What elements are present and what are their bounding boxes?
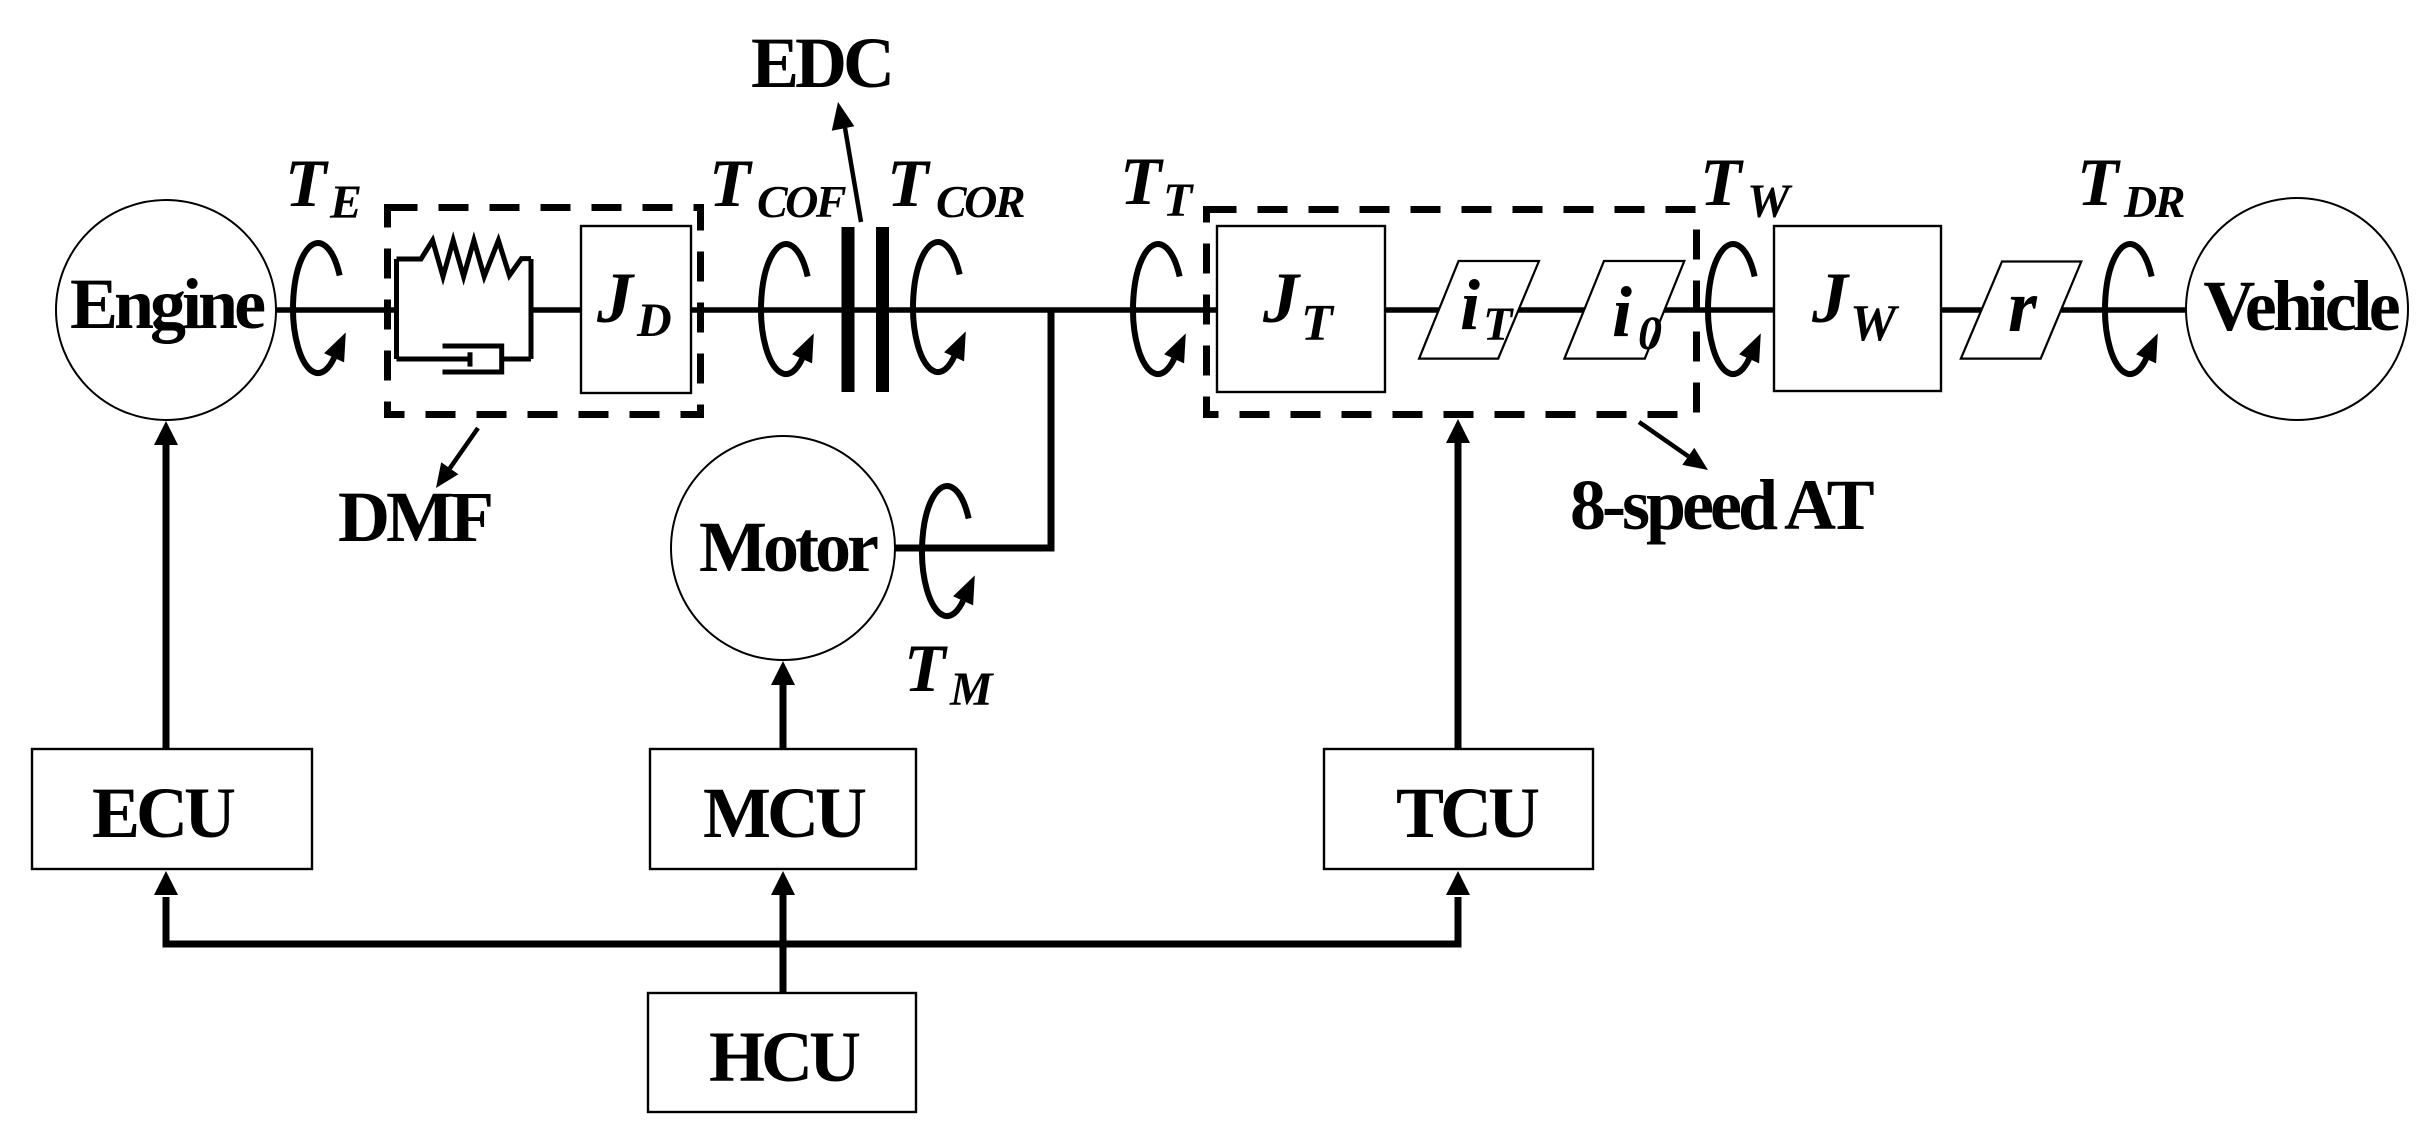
svg-text:8-speed: 8-speed [1570, 465, 1778, 545]
svg-text:T: T [285, 145, 329, 221]
svg-text:E: E [329, 176, 362, 229]
box J_T (transmission inertia) [1217, 226, 1385, 392]
Motor circle [671, 436, 895, 660]
arrow MCU to Motor [780, 683, 787, 749]
svg-text:COR: COR [936, 176, 1024, 227]
svg-text:T: T [1483, 298, 1514, 351]
clutch rear plate [876, 227, 889, 392]
svg-text:Engine: Engine [70, 264, 265, 344]
spring-damper left rail [394, 259, 399, 359]
svg-text:ECU: ECU [92, 773, 235, 853]
svg-text:Vehicle: Vehicle [2203, 266, 2399, 346]
box TCU [1324, 749, 1593, 869]
EDC arrow [845, 128, 861, 222]
box J_D (DMF inertia) [581, 226, 691, 393]
svg-text:M: M [949, 663, 995, 716]
svg-text:MCU: MCU [703, 773, 866, 853]
arrow HCU to MCU [780, 893, 787, 993]
torque arc T_M [922, 486, 975, 616]
wire: shaft from clutch through gearbox to Vehicle [852, 307, 2187, 313]
AT pointer arrow [1639, 422, 1688, 456]
torque arc T_T [1133, 244, 1186, 374]
svg-text:Motor: Motor [699, 507, 878, 587]
8-speed AT dashed box [1207, 210, 1697, 415]
damper (DMF damping) [397, 357, 471, 362]
svg-text:HCU: HCU [709, 1017, 860, 1097]
final drive ratio i_0 parallelogram [1564, 261, 1684, 359]
box ECU [32, 749, 312, 869]
svg-text:AT: AT [1784, 465, 1874, 545]
svg-text:T: T [2077, 144, 2121, 220]
torque arc T_COF [761, 244, 814, 374]
svg-text:W: W [1747, 175, 1793, 228]
svg-text:T: T [709, 145, 753, 221]
svg-text:T: T [904, 630, 948, 706]
svg-text:T: T [1700, 144, 1744, 220]
svg-text:T: T [887, 145, 931, 221]
arrow ECU to Engine [163, 443, 170, 749]
DMF dashed box [388, 208, 701, 415]
torque arc T_E [293, 243, 346, 373]
bus arrow into ECU [154, 871, 178, 895]
Engine circle [56, 200, 276, 420]
svg-text:D: D [636, 294, 672, 347]
box MCU [650, 749, 916, 869]
torque arc T_COR [913, 242, 966, 372]
gear ratio i_T parallelogram [1419, 261, 1539, 359]
svg-text:TCU: TCU [1396, 773, 1539, 853]
svg-text:T: T [1120, 143, 1164, 219]
svg-text:J: J [596, 258, 635, 338]
bus arrow into TCU [1446, 871, 1470, 895]
svg-text:W: W [1850, 295, 1900, 352]
wheel radius r parallelogram [1961, 262, 2081, 359]
HCU bus line [166, 897, 1458, 944]
clutch front plate [842, 227, 855, 392]
svg-text:r: r [2008, 266, 2038, 348]
svg-text:J: J [1811, 258, 1850, 338]
svg-text:i: i [1460, 265, 1480, 345]
svg-text:COF: COF [757, 176, 846, 227]
svg-text:0: 0 [1638, 307, 1662, 360]
svg-text:i: i [1612, 272, 1632, 352]
spring-damper right rail [529, 259, 534, 359]
wire: motor shaft joining main shaft [895, 310, 1051, 548]
wire: main driveline shaft from Engine to DMF spring-damper [276, 307, 397, 313]
DMF pointer arrow [450, 428, 478, 468]
Vehicle circle [2186, 198, 2408, 420]
svg-text:EDC: EDC [751, 23, 891, 103]
svg-text:T: T [1163, 174, 1194, 227]
svg-text:T: T [1301, 295, 1335, 352]
box HCU [648, 993, 916, 1112]
torque arc T_DR [2105, 244, 2158, 374]
svg-text:J: J [1262, 258, 1301, 338]
box J_W (wheel inertia) [1774, 226, 1941, 391]
arrow TCU to 8-speed AT [1455, 441, 1462, 749]
svg-text:DMF: DMF [338, 477, 491, 557]
wire: shaft from spring-damper through J_D to clutch [531, 307, 845, 313]
torque arc T_W [1708, 244, 1761, 374]
spring (DMF stiffness) [397, 240, 532, 276]
svg-text:DR: DR [2123, 176, 2184, 227]
